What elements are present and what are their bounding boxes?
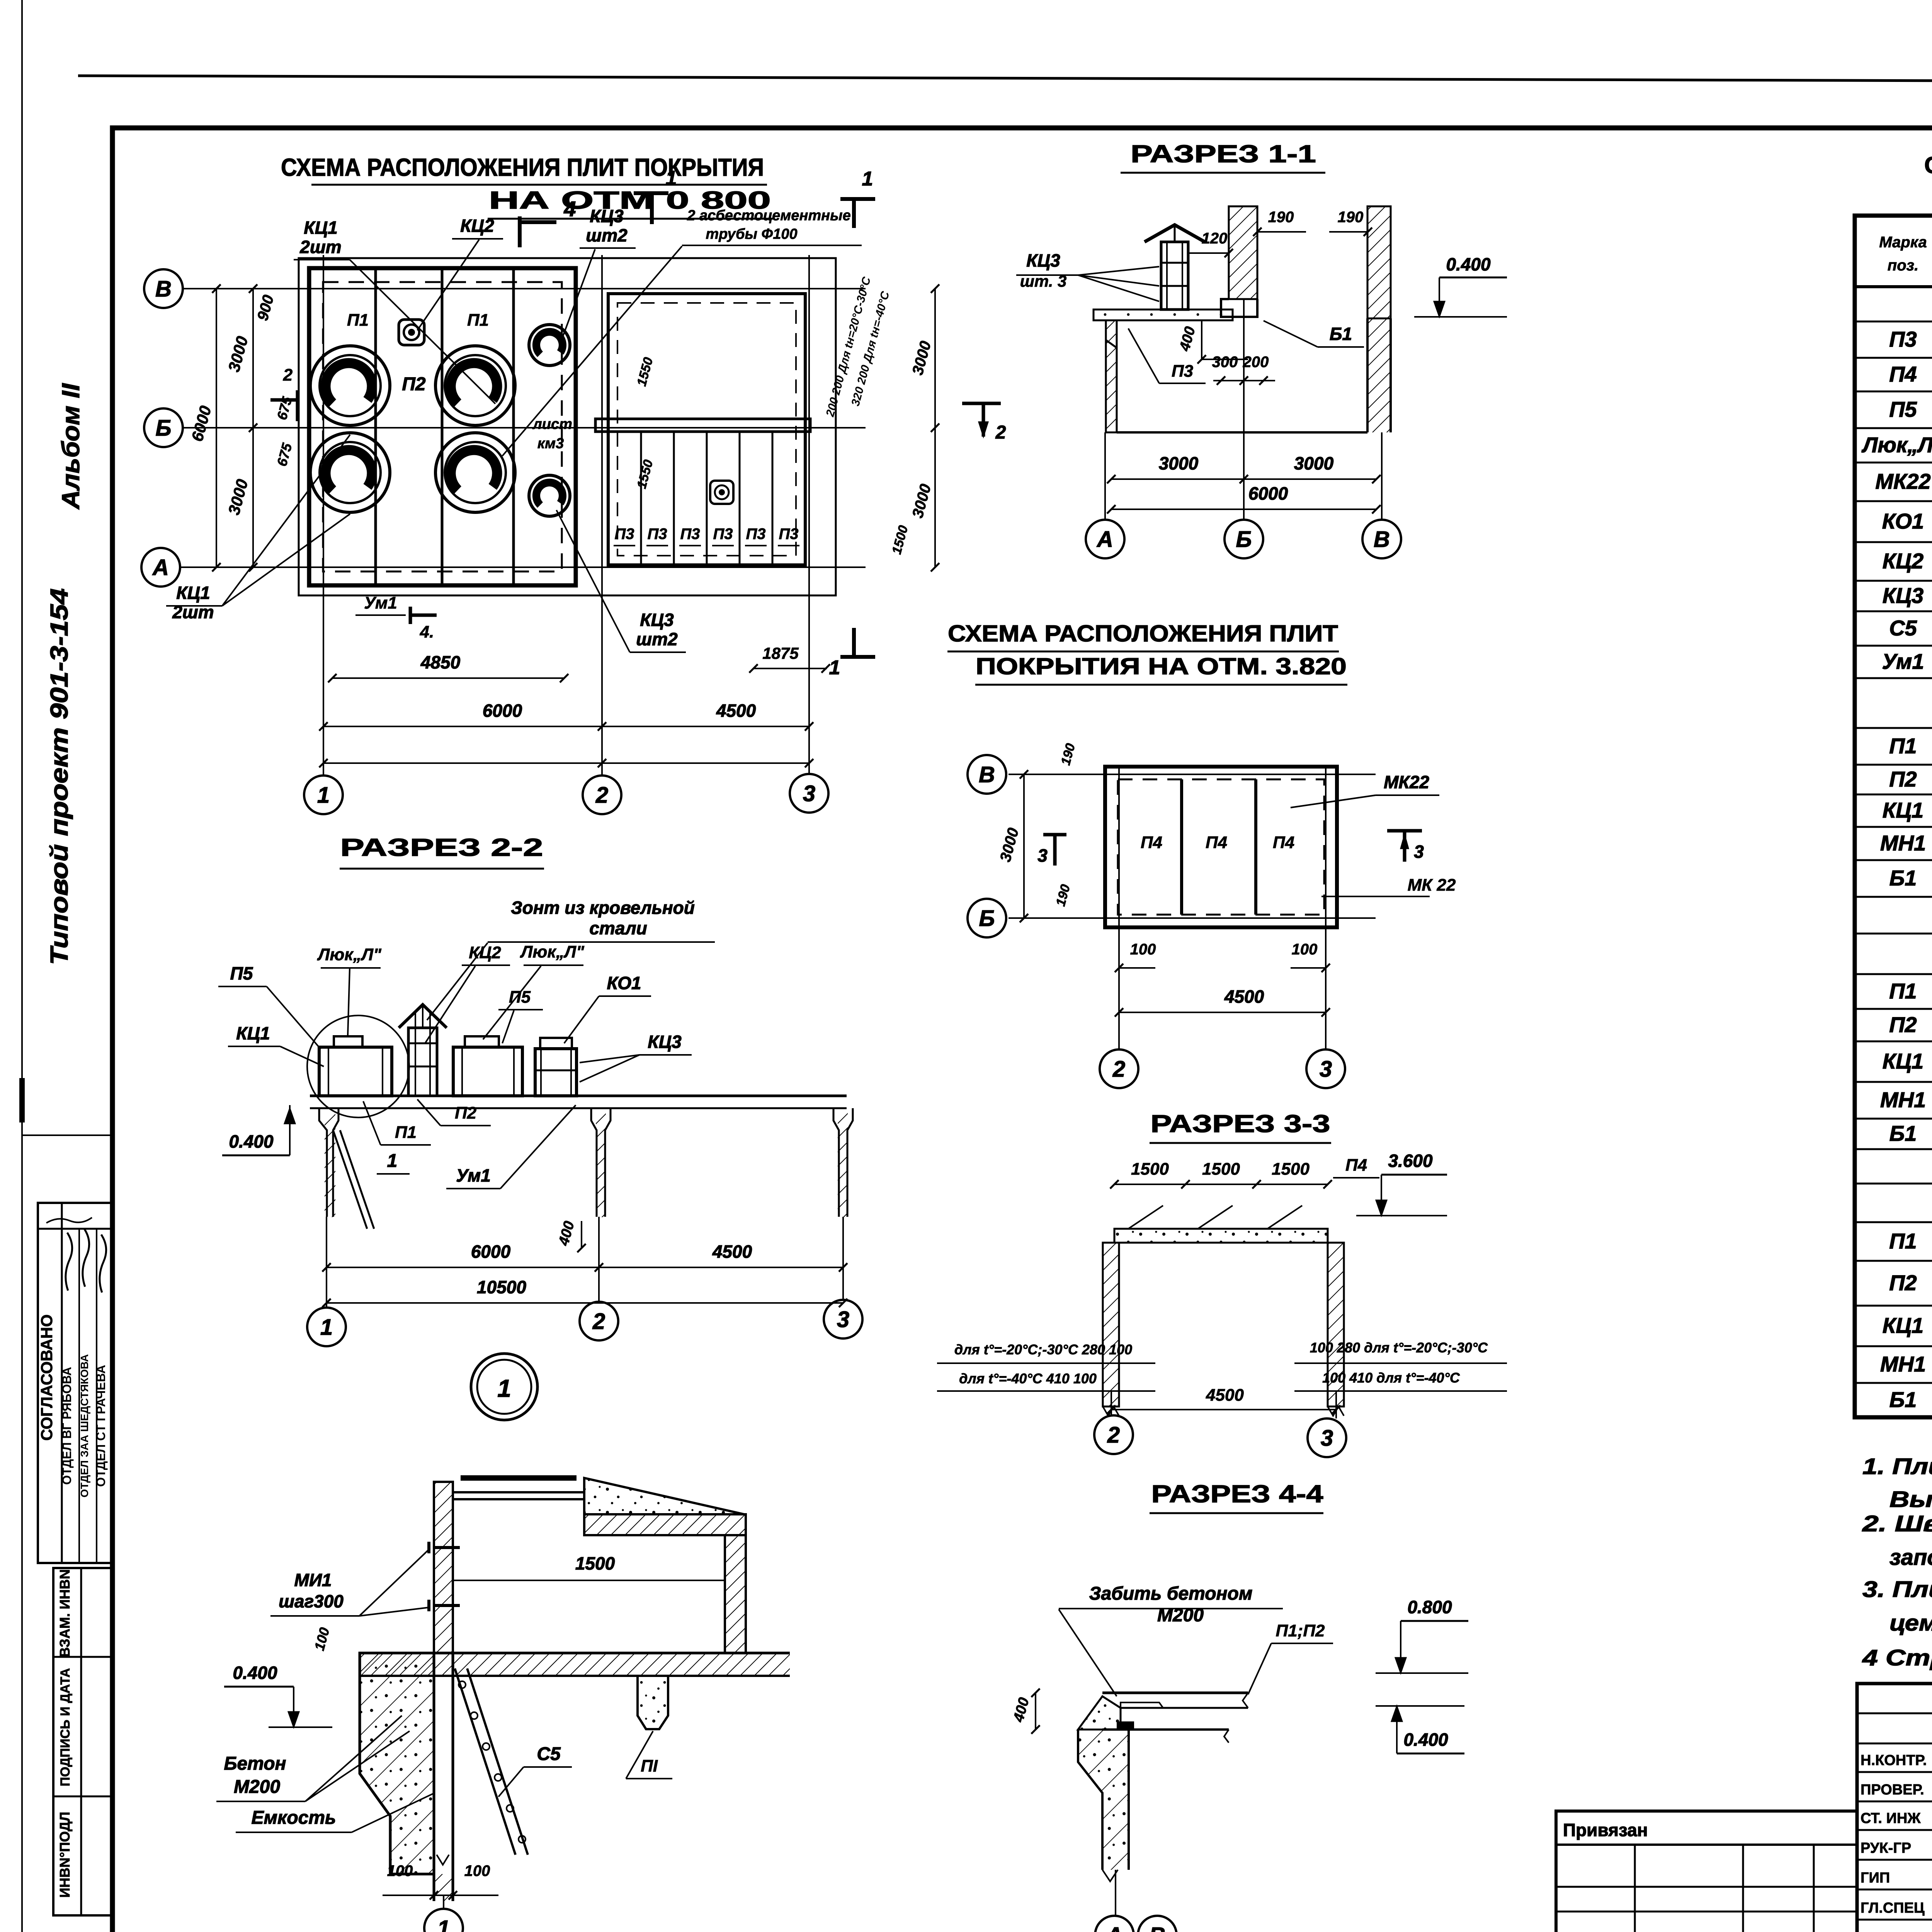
section 3 mark left <box>1043 833 1066 837</box>
svg-text:3: 3 <box>1320 1056 1332 1082</box>
plan 3.820 axis 3 line <box>1325 767 1327 1049</box>
section cut flag 1 plan top <box>634 191 668 195</box>
svg-text:КЦ3: КЦ3 <box>1883 583 1923 608</box>
svg-text:МК22: МК22 <box>1875 469 1930 493</box>
dim chain left 6000 <box>216 289 217 567</box>
axis circle 2 3820 <box>1100 1049 1138 1088</box>
svg-text:А: А <box>152 555 169 580</box>
svg-text:П4: П4 <box>1141 833 1162 852</box>
svg-text:3. Плиты покрытия П4 и П5 ук: 3. Плиты покрытия П4 и П5 укладывать на … <box>1862 1577 1932 1602</box>
P3 strip line 1 <box>640 432 642 565</box>
svg-text:0.400: 0.400 <box>229 1131 274 1151</box>
svg-text:КЦ1: КЦ1 <box>304 218 337 238</box>
svg-text:0.400: 0.400 <box>1446 254 1491 274</box>
svg-text:1: 1 <box>862 168 873 190</box>
section mark 2 left <box>296 390 299 421</box>
svg-text:0.400: 0.400 <box>1403 1730 1448 1750</box>
svg-text:1500: 1500 <box>1202 1160 1240 1179</box>
svg-text:П4: П4 <box>1273 833 1294 852</box>
dim 1875 <box>753 668 827 669</box>
svg-text:100: 100 <box>1292 941 1318 958</box>
svg-text:СПЕЦИФИКАЦИЯ ЭЛЕМЕНТОВ К СХЕ: СПЕЦИФИКАЦИЯ ЭЛЕМЕНТОВ К СХЕМАМ РАСПОЛОЖ… <box>1924 152 1932 178</box>
sec4 axis circles A V <box>1095 1916 1134 1932</box>
section mark 1 right top <box>840 197 875 201</box>
svg-text:100 410 для t°=-40°С: 100 410 для t°=-40°С <box>1322 1370 1460 1386</box>
svg-text:Марка: Марка <box>1879 234 1927 251</box>
svg-text:3000: 3000 <box>1294 453 1334 473</box>
bottom dim 6000/4500 <box>323 726 809 727</box>
plan 3.820 axis 2 line <box>1118 767 1120 1049</box>
dim chain left 3000 3000 <box>252 289 254 567</box>
svg-text:1550: 1550 <box>634 458 656 490</box>
uzel bottom break <box>437 1855 449 1865</box>
svg-text:шт2: шт2 <box>586 225 628 245</box>
svg-text:КЦ1: КЦ1 <box>1883 1313 1923 1338</box>
axis circle 2 <box>583 776 621 814</box>
svg-text:1: 1 <box>320 1315 333 1340</box>
svg-text:Люк„Л": Люк„Л" <box>520 942 585 961</box>
svg-text:П1: П1 <box>347 311 369 330</box>
svg-text:ПРОВЕР.: ПРОВЕР. <box>1861 1782 1924 1798</box>
sec3 slab diagonals <box>1128 1206 1163 1229</box>
svg-text:С5: С5 <box>537 1744 561 1764</box>
axis circle A <box>141 548 180 587</box>
sec3 dim 1500x3 <box>1114 1184 1328 1185</box>
svg-text:ПОКРЫТИЯ НА ОТМ. 3.820: ПОКРЫТИЯ НА ОТМ. 3.820 <box>976 653 1347 679</box>
svg-text:ОТДЕЛ ВГ РЯБОВА: ОТДЕЛ ВГ РЯБОВА <box>60 1367 74 1485</box>
svg-text:М200: М200 <box>234 1777 280 1797</box>
section 1-1 beam notch <box>1221 299 1257 317</box>
sec4 corner concrete <box>1078 1696 1121 1730</box>
svg-text:2 асбестоцементные: 2 асбестоцементные <box>687 207 850 224</box>
svg-text:П1: П1 <box>467 311 489 330</box>
svg-text:3000: 3000 <box>997 826 1022 864</box>
svg-text:6000: 6000 <box>483 701 522 721</box>
uzel luk lid <box>461 1475 577 1481</box>
P3 strip line 3 <box>706 432 708 565</box>
uzel left wall <box>434 1482 453 1653</box>
svg-text:1875: 1875 <box>762 644 799 662</box>
sec1 dim 3000 3000 <box>1111 478 1376 480</box>
axis circle 1 <box>304 776 343 814</box>
svg-text:Забить бетоном: Забить бетоном <box>1089 1583 1253 1604</box>
plan left compartment thick rectangle <box>309 268 576 585</box>
section 1-1 left wall flare <box>1094 310 1117 348</box>
sec2 chimney umbrella <box>399 1005 447 1028</box>
svg-text:ОТДЕЛ СТ ГРАЧЕВА: ОТДЕЛ СТ ГРАЧЕВА <box>94 1365 108 1487</box>
svg-text:П4: П4 <box>1889 362 1917 386</box>
sec3 left wall <box>1103 1243 1119 1406</box>
svg-text:1: 1 <box>317 782 330 808</box>
svg-text:Привязан: Привязан <box>1563 1820 1648 1840</box>
axis circle 2 sec2 <box>580 1302 618 1340</box>
svg-text:Бетон: Бетон <box>224 1753 286 1774</box>
axis circle 3 sec2 <box>824 1300 862 1338</box>
well circle bottom-right <box>435 433 515 512</box>
svg-text:КЦ1: КЦ1 <box>1883 1049 1923 1073</box>
section mark 4 top <box>518 216 522 247</box>
section 1-1 chimney <box>1161 242 1188 310</box>
svg-text:6000: 6000 <box>471 1242 511 1262</box>
svg-text:шаг300: шаг300 <box>279 1591 344 1611</box>
svg-text:0.400: 0.400 <box>233 1663 277 1683</box>
uzel right wall <box>725 1535 746 1653</box>
svg-text:3000: 3000 <box>1159 453 1199 473</box>
svg-text:П3: П3 <box>746 526 765 543</box>
svg-text:поз.: поз. <box>1888 257 1918 274</box>
svg-text:2шт: 2шт <box>172 602 214 622</box>
uzel P1 rib <box>638 1676 668 1729</box>
uzel tank wall below <box>433 1653 435 1901</box>
svg-text:400: 400 <box>1010 1696 1032 1724</box>
svg-text:190: 190 <box>1058 742 1078 767</box>
plan 3.820 outer rect <box>1105 767 1337 927</box>
svg-text:П3: П3 <box>680 526 700 543</box>
svg-text:400: 400 <box>1177 325 1199 353</box>
svg-text:С5: С5 <box>1889 616 1917 640</box>
sec2 axis stems <box>326 1217 327 1308</box>
svg-text:КЦ3: КЦ3 <box>1026 250 1060 270</box>
svg-text:100: 100 <box>311 1626 332 1652</box>
svg-text:4 Стремянку С6 установить д: 4 Стремянку С6 установить до монтажа кол… <box>1862 1645 1932 1670</box>
svg-text:КЦ3: КЦ3 <box>590 206 624 226</box>
svg-text:МИ1: МИ1 <box>294 1570 332 1590</box>
small well KC3 bottom <box>529 475 570 516</box>
P3 strip line 4 <box>739 432 741 565</box>
svg-text:П2: П2 <box>1889 767 1917 791</box>
svg-text:КЦ2: КЦ2 <box>460 216 494 236</box>
svg-text:РАЗРЕЗ 4-4: РАЗРЕЗ 4-4 <box>1151 1480 1324 1508</box>
svg-text:А: А <box>1105 1923 1122 1932</box>
section 1-1 B pillar <box>1229 206 1257 299</box>
detail mark circle 1 <box>471 1354 537 1420</box>
sec2 right wall <box>833 1108 839 1217</box>
svg-text:цементно-песчаный раствор М5: цементно-песчаный раствор М50. <box>1889 1611 1932 1636</box>
svg-text:В: В <box>979 762 995 787</box>
svg-text:190: 190 <box>1338 209 1364 226</box>
P3 strip underlines <box>614 545 635 546</box>
sec4 wall below <box>1078 1730 1102 1870</box>
svg-text:3: 3 <box>803 781 815 806</box>
svg-text:ПI: ПI <box>641 1757 658 1776</box>
svg-text:6000: 6000 <box>1248 483 1288 503</box>
svg-text:П1: П1 <box>395 1123 417 1142</box>
plan 3.820 dashed inner rect <box>1118 779 1324 915</box>
svg-text:Б1: Б1 <box>1889 1388 1917 1412</box>
svg-text:МК 22: МК 22 <box>1408 876 1456 895</box>
sec4 axis stem <box>1115 1870 1116 1916</box>
bottom dim 4850 <box>332 677 564 679</box>
svg-text:РУК-ГР: РУК-ГР <box>1861 1840 1911 1856</box>
stamp signatures squiggles <box>66 1233 72 1291</box>
svg-text:МК22: МК22 <box>1384 772 1429 792</box>
svg-text:заполнителе.: заполнителе. <box>1889 1545 1932 1570</box>
svg-text:П2: П2 <box>1889 1012 1917 1037</box>
section 1-1 right wall lower <box>1366 318 1369 432</box>
axis circle 1 sec2 <box>307 1308 346 1346</box>
svg-text:П4: П4 <box>1206 833 1227 852</box>
axis line B <box>183 427 866 429</box>
svg-text:П3: П3 <box>779 526 798 543</box>
svg-text:3000: 3000 <box>224 477 252 517</box>
svg-text:В: В <box>1374 527 1390 552</box>
plate joint line x972 <box>374 268 377 585</box>
section-2 arrow mark <box>962 402 1001 405</box>
plan outer thin rectangle <box>299 258 836 595</box>
axis line 1 <box>323 255 324 776</box>
svg-text:Б1: Б1 <box>1330 324 1352 344</box>
svg-text:Люк„Л": Люк„Л" <box>1861 433 1932 457</box>
svg-text:СТ. ИНЖ: СТ. ИНЖ <box>1861 1810 1921 1827</box>
svg-text:П1: П1 <box>1889 734 1917 758</box>
svg-text:ОТДЕЛ ЗАА ШЕДСТЯКОВА: ОТДЕЛ ЗАА ШЕДСТЯКОВА <box>78 1354 90 1497</box>
svg-text:3: 3 <box>1037 845 1048 866</box>
axis line 3 <box>808 255 810 774</box>
svg-text:Альбом II: Альбом II <box>57 383 85 510</box>
svg-text:П3: П3 <box>713 526 733 543</box>
spec table horizontal lines <box>1855 285 1932 288</box>
svg-text:675: 675 <box>274 441 295 468</box>
sec3 right wall <box>1328 1243 1344 1406</box>
section 1-1 left wall <box>1106 320 1117 432</box>
svg-text:120: 120 <box>1202 230 1228 247</box>
axis circle V 3820 <box>968 755 1006 794</box>
axis circle V sec1 <box>1362 520 1401 558</box>
uzel ladder C5 <box>455 1668 515 1855</box>
svg-text:2. Швы между плитами забить: 2. Швы между плитами забить бетоном М200… <box>1862 1511 1932 1536</box>
svg-text:1: 1 <box>437 1916 450 1932</box>
axis circle B 3820 <box>968 899 1006 937</box>
well circle KC1 bottom-left <box>310 433 390 512</box>
sec3 dim 4500 <box>1111 1409 1336 1410</box>
sec2 ladder <box>333 1130 367 1229</box>
svg-text:3.600: 3.600 <box>1388 1151 1433 1171</box>
svg-text:4500: 4500 <box>712 1242 752 1262</box>
svg-text:П1: П1 <box>1889 979 1917 1003</box>
svg-text:для t°=-40°С 410 100: для t°=-40°С 410 100 <box>959 1371 1097 1386</box>
svg-text:П2: П2 <box>1889 1270 1917 1295</box>
uzel concrete mass <box>360 1653 434 1874</box>
sec2 dim 10500 <box>327 1302 843 1304</box>
axis line A <box>180 566 866 568</box>
svg-text:4500: 4500 <box>1224 986 1264 1007</box>
svg-text:Типовой проект 901-3-154: Типовой проект 901-3-154 <box>45 588 73 965</box>
svg-text:КЦ2: КЦ2 <box>1883 549 1923 573</box>
svg-text:СХЕМА РАСПОЛОЖЕНИЯ ПЛИТ: СХЕМА РАСПОЛОЖЕНИЯ ПЛИТ <box>948 621 1338 646</box>
axis circle A sec1 <box>1086 520 1124 558</box>
section mark 1 right bottom <box>840 655 875 659</box>
privyazan box <box>1556 1811 1857 1932</box>
svg-text:1500: 1500 <box>575 1553 615 1573</box>
svg-text:2шт: 2шт <box>299 237 341 257</box>
svg-text:4500: 4500 <box>1206 1386 1244 1405</box>
sec2 stakan box 1 <box>319 1047 392 1096</box>
svg-text:2: 2 <box>1107 1422 1120 1447</box>
beam B1 bar <box>595 419 810 432</box>
svg-text:1: 1 <box>387 1151 398 1171</box>
svg-text:КО1: КО1 <box>607 973 641 993</box>
plan 3.820 joint line 2 <box>1254 779 1257 915</box>
sec2 stakan box 3 <box>535 1049 577 1096</box>
svg-text:3: 3 <box>1321 1425 1333 1451</box>
svg-text:КЦ1: КЦ1 <box>176 583 210 603</box>
sec2 left wall corbel <box>319 1108 327 1217</box>
section 1-1 floor line <box>1117 431 1367 434</box>
svg-text:2: 2 <box>283 366 293 384</box>
dim 3000 rotated <box>1023 774 1025 918</box>
svg-text:1500: 1500 <box>1272 1160 1310 1179</box>
svg-text:100: 100 <box>387 1862 413 1879</box>
svg-text:П4: П4 <box>1345 1156 1367 1175</box>
svg-text:МН1: МН1 <box>1880 1352 1926 1376</box>
svg-text:Б: Б <box>1236 527 1252 552</box>
sec2 lid 2 <box>465 1036 499 1047</box>
svg-text:П2: П2 <box>402 374 426 395</box>
sec3 top slab <box>1114 1229 1328 1243</box>
well circle top-right <box>435 346 515 425</box>
sec2 dim 6000 4500 <box>327 1267 843 1268</box>
svg-text:П5: П5 <box>1889 397 1917 422</box>
stamp table soglasovano <box>38 1203 112 1563</box>
svg-text:ПОДПИСЬ И ДАТА: ПОДПИСЬ И ДАТА <box>58 1668 73 1786</box>
sec1 dim 6000 <box>1111 509 1376 510</box>
P3 strip line 2 <box>673 432 675 565</box>
svg-text:П3: П3 <box>1172 362 1193 381</box>
svg-text:Б: Б <box>155 415 171 440</box>
svg-text:1550: 1550 <box>634 356 656 388</box>
embedded KC2 in right compartment <box>710 481 733 504</box>
svg-text:190: 190 <box>1053 883 1073 908</box>
svg-text:МН1: МН1 <box>1880 831 1926 855</box>
svg-text:км3: км3 <box>537 435 564 452</box>
svg-text:100 280 для t°=-20°С;-30°С: 100 280 для t°=-20°С;-30°С <box>1310 1340 1488 1355</box>
svg-text:400: 400 <box>556 1219 578 1248</box>
top border line <box>78 76 1932 83</box>
svg-text:Емкость: Емкость <box>251 1808 336 1828</box>
stamp table inv block <box>53 1568 112 1915</box>
plate joint line x1144 <box>441 268 444 585</box>
section 1-1 top slab <box>1094 310 1233 320</box>
svg-text:1: 1 <box>829 656 840 679</box>
svg-text:П5: П5 <box>230 963 253 983</box>
svg-text:РАЗРЕЗ 3-3: РАЗРЕЗ 3-3 <box>1151 1110 1330 1138</box>
axis line 2 <box>601 255 603 776</box>
svg-text:П2: П2 <box>455 1104 477 1122</box>
small well KC3 top <box>529 325 570 366</box>
svg-text:для t°=-20°С;-30°С 280 100: для t°=-20°С;-30°С 280 100 <box>954 1342 1132 1357</box>
plan right compartment rectangle <box>608 294 805 565</box>
svg-text:СХЕМА РАСПОЛОЖЕНИЯ ПЛИТ ПОКРЫТ: СХЕМА РАСПОЛОЖЕНИЯ ПЛИТ ПОКРЫТИЯ <box>281 153 764 181</box>
svg-text:КЦ3: КЦ3 <box>648 1032 682 1052</box>
dim 4500 bottom <box>1119 1012 1326 1013</box>
svg-text:1500: 1500 <box>889 524 911 556</box>
sec2 lid 3 <box>540 1038 572 1049</box>
svg-text:КЦ1: КЦ1 <box>236 1023 270 1043</box>
sec3 axis stems <box>1111 1391 1112 1415</box>
axis circle 3 3820 <box>1306 1049 1345 1088</box>
axis circle B <box>144 408 183 447</box>
sec3 wall break marks <box>1103 1406 1119 1416</box>
sec2 detail circle <box>307 1015 409 1117</box>
svg-text:Ум1: Ум1 <box>364 594 397 612</box>
uzel MI1 ticks <box>434 1546 460 1549</box>
svg-text:4: 4 <box>563 197 576 221</box>
svg-text:ИНВN°ПОДЛ: ИНВN°ПОДЛ <box>57 1812 73 1898</box>
uzel axis circle 1 <box>443 1895 444 1909</box>
axis circle V <box>144 269 183 308</box>
svg-text:КЦ1: КЦ1 <box>1883 798 1923 822</box>
sec2 chimney <box>408 1028 437 1096</box>
svg-text:2: 2 <box>592 1309 605 1334</box>
svg-text:П3: П3 <box>1889 327 1917 351</box>
svg-text:1. Плиты покрытия П1; П2 пр: 1. Плиты покрытия П1; П2 приварить к зак… <box>1862 1454 1932 1479</box>
svg-text:шт2: шт2 <box>636 629 678 649</box>
plate joint line x1329 <box>512 268 515 585</box>
svg-text:П3: П3 <box>647 526 667 543</box>
axis circle 3 <box>790 774 828 813</box>
svg-text:В: В <box>1149 1923 1165 1932</box>
svg-text:900: 900 <box>254 293 277 323</box>
svg-text:2: 2 <box>1112 1056 1125 1082</box>
svg-text:200: 200 <box>1243 354 1269 371</box>
svg-text:Н.КОНТР.: Н.КОНТР. <box>1861 1752 1927 1769</box>
svg-text:КЦ3: КЦ3 <box>640 610 674 630</box>
plan 3.820 axis B line <box>1009 917 1376 919</box>
plan left compartment dashed inner <box>323 282 562 571</box>
fold mark horizontal <box>22 1134 112 1136</box>
plan right compartment dashed inner <box>617 303 796 556</box>
svg-text:Б1: Б1 <box>1889 1121 1917 1146</box>
axis circle B sec1 <box>1225 520 1263 558</box>
svg-text:А: А <box>1096 527 1113 552</box>
section 1-1 axis stems <box>1104 432 1106 520</box>
P3 strip line 5 <box>772 432 774 565</box>
right dim chain 3000 3000 <box>934 289 936 567</box>
svg-text:3000: 3000 <box>909 339 935 377</box>
axis circle 3 sec3 <box>1308 1418 1346 1457</box>
svg-text:НАЧ.ОТД: НАЧ.ОТД <box>1861 1930 1925 1932</box>
svg-text:3000: 3000 <box>224 334 252 374</box>
sec2 mid wall <box>591 1108 597 1217</box>
svg-text:3: 3 <box>837 1307 849 1332</box>
svg-text:трубы Ф100: трубы Ф100 <box>706 226 797 242</box>
svg-text:МН1: МН1 <box>1880 1088 1926 1112</box>
section 1-1 right wall upper <box>1367 206 1391 318</box>
plan 3.820 joint line 1 <box>1180 779 1183 915</box>
axis circle 2 sec3 <box>1094 1415 1133 1454</box>
svg-text:100: 100 <box>1130 941 1156 958</box>
svg-text:2: 2 <box>595 782 608 808</box>
svg-text:Ум1: Ум1 <box>456 1165 491 1185</box>
svg-text:3: 3 <box>1414 842 1424 862</box>
svg-text:190: 190 <box>1268 209 1294 226</box>
sec2 stakan box 2 <box>453 1047 522 1096</box>
svg-text:П3: П3 <box>614 526 634 543</box>
svg-text:ГЛ.СПЕЦ: ГЛ.СПЕЦ <box>1861 1900 1925 1916</box>
embedded part KC2 square <box>399 320 424 345</box>
svg-text:1500: 1500 <box>1131 1160 1169 1179</box>
svg-text:1: 1 <box>497 1374 511 1402</box>
svg-text:П1: П1 <box>1889 1229 1917 1253</box>
signature block grid <box>1857 1684 1932 1932</box>
sheet fold mark <box>19 1078 25 1122</box>
svg-text:100: 100 <box>464 1862 490 1879</box>
svg-text:4.: 4. <box>420 622 434 641</box>
sec2 lid 1 <box>334 1036 362 1047</box>
svg-text:Ум1: Ум1 <box>1882 649 1924 673</box>
svg-text:КО1: КО1 <box>1882 509 1924 533</box>
svg-text:Зонт из кровельной: Зонт из кровельной <box>511 898 695 918</box>
